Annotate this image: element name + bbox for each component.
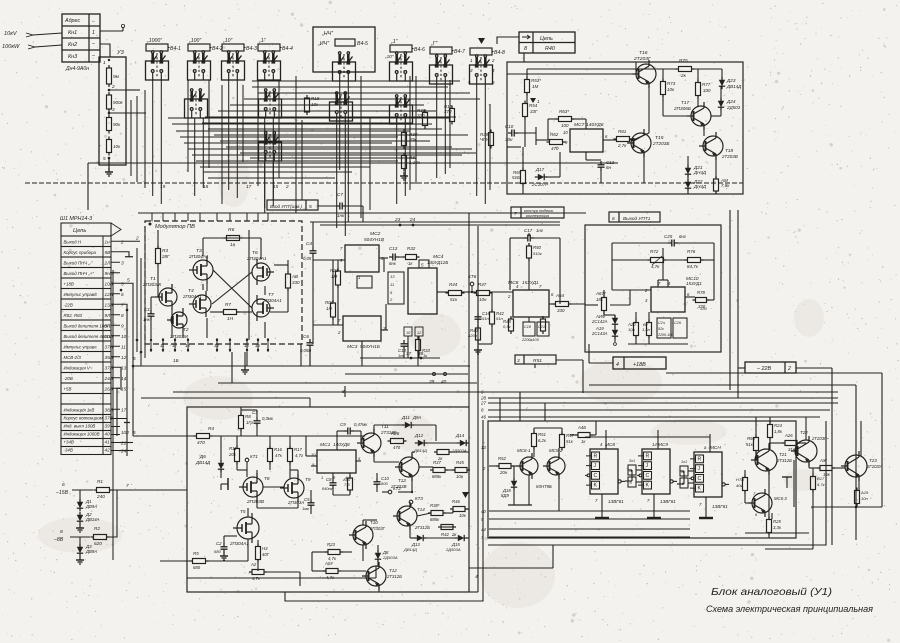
transistor T9 2P303A (284, 478, 304, 498)
svg-text:Д23: Д23 (726, 78, 736, 83)
diode D24 (718, 101, 724, 107)
svg-text:ДВ9А: ДВ9А (85, 549, 97, 554)
svg-text:R40: R40 (545, 46, 555, 52)
resistor R49 (541, 319, 546, 331)
svg-text:10: 10 (563, 130, 568, 135)
resistor R53b 33k (560, 435, 565, 448)
resistor R54 33G (523, 104, 528, 117)
svg-text:коллектора: коллектора (526, 213, 550, 218)
svg-text:МС7: МС7 (574, 122, 585, 128)
wire R51 box to bus (556, 359, 583, 361)
svg-text:9м: 9м (113, 74, 120, 79)
wire inner bottom rail (187, 577, 376, 579)
modulator dashed box (145, 221, 302, 344)
svg-text:-34В: -34В (64, 448, 73, 453)
svg-text:С17: С17 (524, 228, 533, 233)
svg-text:330: 330 (700, 306, 708, 311)
svg-text:240: 240 (96, 494, 105, 499)
svg-text:13Л: 13Л (105, 303, 114, 308)
svg-text:2С143А: 2С143А (591, 331, 608, 336)
svg-text:2П303А: 2П303А (287, 500, 304, 505)
svg-text:R: R (698, 456, 702, 462)
svg-text:Т5: Т5 (240, 509, 246, 514)
table pin stubs (111, 240, 120, 242)
svg-text:2: 2 (787, 366, 791, 372)
svg-text:„НЧ”: „НЧ” (321, 31, 333, 37)
svg-text:R2: R2 (94, 526, 100, 531)
wire from R40 box down (523, 53, 525, 62)
resistor R39 4.7k (489, 133, 494, 146)
wire +18V left (589, 362, 613, 364)
svg-text:42: 42 (105, 448, 111, 453)
transistor T21 2T312B (755, 449, 777, 471)
ground mark near T21 (782, 476, 792, 478)
capacitor C9 0.47mk (347, 428, 349, 435)
wire bundle horizontal collectors (168, 117, 450, 119)
svg-text:2200-100: 2200-100 (657, 333, 673, 337)
svg-text:10н: 10н (479, 297, 487, 302)
capacitor C2 680 (221, 546, 228, 548)
resistor RA01 7.5k (714, 179, 719, 191)
svg-text:R76: R76 (687, 249, 696, 254)
resistor R2 620 (94, 535, 107, 540)
svg-text:R26: R26 (391, 431, 400, 436)
svg-text:2Т312Б: 2Т312Б (776, 458, 792, 463)
diode D1 (77, 502, 83, 508)
svg-text:504УН1Б: 504УН1Б (360, 344, 380, 349)
digital block frame (488, 421, 796, 538)
svg-text:Т22: Т22 (800, 430, 808, 435)
wire table row 21 right (120, 442, 133, 444)
svg-text:R: R (594, 453, 598, 459)
svg-text:2П306Б: 2П306Б (673, 106, 691, 111)
svg-text:R: R (646, 453, 650, 459)
svg-text:КТ1: КТ1 (250, 454, 258, 459)
svg-text:+34В: +34В (64, 440, 74, 445)
resistor R8 330 (286, 274, 291, 288)
svg-text:КТ2: КТ2 (393, 486, 401, 491)
wire node3 right (126, 112, 146, 114)
ic MC4 input pin box (388, 272, 404, 304)
svg-text:K: K (698, 486, 702, 492)
svg-text:10Л: 10Л (105, 282, 114, 287)
svg-text:3: 3 (112, 107, 115, 112)
svg-text:19: 19 (160, 184, 166, 189)
svg-text:К0НТ9Б: К0НТ9Б (536, 484, 552, 489)
svg-text:R25: R25 (773, 519, 781, 524)
wire vertical MC4 bottom (407, 336, 409, 358)
wire Кн1 row to stub (100, 30, 123, 32)
svg-text:R46: R46 (452, 499, 460, 504)
wire R5 right (207, 560, 248, 562)
svg-text:2П304А1: 2П304А1 (182, 294, 202, 299)
svg-text:6,2к: 6,2к (538, 438, 547, 443)
resistor R1 240 (97, 488, 110, 493)
flip-flop MC8 133TV1 (590, 449, 618, 494)
svg-text:ДВ9А: ДВ9А (85, 504, 97, 509)
resistor R36 330 (423, 113, 428, 126)
svg-text:С21: С21 (538, 325, 545, 329)
svg-text:1х1: 1х1 (681, 460, 687, 464)
svg-text:51к: 51к (450, 297, 458, 302)
svg-text:ДН4Д: ДН4Д (693, 184, 707, 189)
svg-text:10н: 10н (456, 474, 464, 479)
svg-text:140УД12Б: 140УД12Б (427, 260, 448, 265)
resistor R5 680 (193, 559, 206, 564)
ground D3 (79, 556, 81, 560)
resistor R26b 31k (785, 441, 797, 446)
svg-text:7: 7 (514, 211, 517, 217)
svg-text:17: 17 (246, 184, 252, 189)
svg-text:46: 46 (481, 415, 487, 420)
svg-text:1М: 1М (331, 274, 338, 279)
svg-text:R32: R32 (407, 246, 416, 251)
svg-text:С10: С10 (505, 124, 514, 129)
svg-text:А26: А26 (784, 433, 793, 438)
svg-text:1: 1 (92, 30, 95, 36)
svg-text:2П303В: 2П303В (246, 499, 264, 504)
transistor T7 2P304A1 (252, 299, 270, 317)
svg-text:„1”: „1” (258, 38, 266, 44)
svg-text:Т18: Т18 (725, 148, 733, 153)
svg-text:R45: R45 (456, 460, 464, 465)
capacitor C10b 600 (374, 481, 381, 483)
svg-text:Т10: Т10 (370, 520, 378, 525)
svg-text:100кW: 100кW (2, 44, 20, 50)
svg-text:3,3к: 3,3к (773, 525, 782, 530)
svg-text:R3: R3 (162, 248, 168, 253)
ground stub on Корпус row (120, 252, 129, 257)
wire verticals to modulator top (151, 213, 153, 221)
svg-text:12: 12 (172, 343, 177, 348)
svg-text:Н3: Н3 (262, 546, 268, 551)
node 5 (108, 157, 111, 160)
capacitor C5 1mk (308, 502, 315, 504)
svg-text:R78: R78 (697, 290, 705, 295)
svg-text:10к: 10к (667, 87, 675, 92)
ground under R31 (403, 172, 405, 176)
svg-text:Блок аналоговый (У1): Блок аналоговый (У1) (711, 587, 832, 598)
svg-text:K: K (594, 483, 598, 489)
svg-text:Корпус прибора: Корпус прибора (64, 250, 97, 255)
node 23 24 dots (399, 224, 402, 227)
svg-text:ДВ14А: ДВ14А (85, 517, 100, 522)
resistor R42v (490, 312, 495, 324)
svg-text:1н: 1н (230, 242, 236, 247)
transistor T17 (691, 106, 711, 126)
svg-text:153УД1: 153УД1 (686, 281, 702, 286)
svg-text:11: 11 (160, 343, 165, 348)
resistor R44 51k (449, 291, 462, 296)
svg-text:С2: С2 (216, 541, 222, 546)
wire vertical MC3 bottom (361, 341, 363, 366)
svg-text:37В: 37В (105, 416, 113, 421)
svg-text:14: 14 (121, 376, 127, 381)
transistor T3 2P304A1 (193, 260, 213, 280)
svg-text:С6: С6 (303, 334, 309, 339)
svg-text:2С142А: 2С142А (591, 319, 608, 324)
svg-text:4,7г: 4,7г (295, 453, 304, 458)
ic MC8 153UD1 (513, 290, 549, 317)
svg-text:Выход ПНЧ „-”: Выход ПНЧ „-” (64, 261, 94, 266)
switch В4-6 value label (390, 45, 412, 52)
svg-text:10Л: 10Л (121, 430, 129, 435)
svg-text:R5: R5 (193, 551, 199, 556)
svg-text:Д6: Д6 (199, 454, 206, 459)
svg-text:0,5к: 0,5к (503, 324, 512, 329)
svg-text:R47: R47 (478, 282, 487, 287)
resistor R65 (521, 171, 526, 184)
svg-text:6: 6 (121, 292, 124, 297)
svg-text:1Б: 1Б (173, 358, 179, 363)
resistor R81 2.7k (617, 137, 630, 142)
wires upt2 internals (220, 484, 222, 490)
transistor T13 2G203V (399, 457, 419, 477)
ground under modulator (244, 366, 246, 370)
svg-text:R63*: R63* (559, 109, 569, 114)
divider block U3 (99, 57, 126, 165)
diode D3 (77, 547, 83, 553)
svg-text:С2ч: С2ч (658, 321, 665, 325)
marker triangle 2 (462, 492, 469, 498)
resistor R76 84.7k (688, 258, 701, 263)
svg-text:Выход ПНЧ „+”: Выход ПНЧ „+” (64, 271, 95, 276)
svg-text:5: 5 (133, 430, 136, 435)
transistor T11 2T312B (361, 433, 381, 453)
svg-text:12: 12 (121, 355, 127, 360)
wire right vertical x882 (881, 373, 883, 507)
svg-text:9: 9 (121, 323, 124, 328)
resistor R37 885k (433, 468, 445, 473)
svg-text:Т16: Т16 (639, 50, 648, 56)
diode D6 DV14D (218, 463, 224, 469)
diode D18 KD9 (511, 481, 517, 487)
svg-text:2: 2 (111, 84, 115, 89)
wire verticals x301 x310 below modulator (300, 344, 302, 366)
svg-text:Выход Н: Выход Н (64, 240, 82, 245)
transistor MC5-2 (547, 457, 565, 475)
svg-text:„1000”: „1000” (146, 38, 162, 44)
diode D13 DV14D (417, 535, 423, 541)
svg-text:R81: R81 (618, 129, 627, 134)
transistor T15 2T203B (631, 133, 651, 153)
svg-text:18к: 18к (596, 297, 604, 302)
svg-text:51н: 51н (482, 316, 490, 321)
label box -22V (745, 362, 796, 373)
svg-text:Импульс управл.: Импульс управл. (64, 345, 98, 350)
svg-text:ДН4Д: ДН4Д (693, 170, 707, 175)
resistor 900k (107, 95, 112, 109)
svg-text:5: 5 (133, 356, 136, 361)
svg-text:С18: С18 (524, 325, 532, 329)
svg-text:+18В: +18В (633, 362, 646, 368)
svg-text:R51: R51 (538, 432, 546, 437)
svg-text:10кV: 10кV (4, 31, 18, 37)
svg-text:20н: 20н (499, 470, 508, 475)
svg-text:R77: R77 (702, 82, 711, 87)
resistor R64 330 (556, 302, 569, 307)
wire box to C7 (318, 205, 337, 207)
svg-text:13: 13 (185, 343, 190, 348)
resistor R22 1M (331, 303, 336, 317)
svg-text:140УД8: 140УД8 (333, 442, 350, 447)
svg-text:9Л: 9Л (105, 313, 112, 318)
wire y385 long (589, 384, 856, 386)
svg-text:J: J (698, 466, 701, 472)
svg-text:8: 8 (524, 46, 527, 52)
svg-text:МСВ-2/3: МСВ-2/3 (64, 355, 82, 360)
svg-text:2Т203Б: 2Т203Б (652, 141, 669, 146)
top-right block frame (507, 62, 743, 194)
transistor T22 2T203G (795, 440, 817, 462)
svg-text:24: 24 (409, 217, 416, 222)
svg-text:R51: R51 (533, 358, 542, 364)
svg-text:2Д503А: 2Д503А (445, 547, 461, 552)
svg-text:1Гр: 1Гр (246, 420, 254, 425)
svg-text:10н: 10н (628, 327, 636, 332)
svg-text:1Н: 1Н (326, 306, 333, 311)
svg-text:2Д503А: 2Д503А (382, 555, 398, 560)
capacitor C7 (339, 203, 341, 210)
wire T16 collector (648, 62, 650, 64)
bus wires above digital block (173, 391, 838, 393)
svg-text:2: 2 (491, 58, 495, 63)
svg-text:R24: R24 (774, 423, 782, 428)
svg-text:МС1: МС1 (320, 442, 331, 448)
svg-text:R73: R73 (667, 81, 676, 86)
svg-text:С7: С7 (337, 192, 343, 197)
resistor R62 470 (550, 140, 563, 145)
svg-text:Д11: Д11 (401, 415, 410, 420)
svg-text:33Г: 33Г (530, 109, 538, 114)
svg-text:В4-2: В4-2 (212, 46, 223, 52)
ground C2 (223, 552, 225, 556)
svg-text:3: 3 (121, 260, 124, 265)
diode D19 2C142A (612, 318, 618, 324)
svg-text:37Л: 37Л (105, 366, 114, 371)
wire R75 to right rail (691, 68, 722, 70)
label box +18V (613, 357, 666, 369)
svg-text:30н: 30н (505, 137, 513, 142)
node 2 (108, 89, 111, 92)
svg-text:А4Б: А4Б (577, 425, 586, 430)
svg-text:1мк: 1мк (302, 506, 310, 511)
svg-text:ДВ14Д: ДВ14Д (726, 84, 742, 89)
diode D12 DV14D (418, 440, 424, 446)
svg-text:10: 10 (121, 334, 127, 339)
svg-text:330: 330 (703, 88, 711, 93)
svg-text:„ИЧ”: „ИЧ” (317, 41, 329, 47)
svg-text:R21: R21 (330, 268, 339, 273)
svg-text:11: 11 (390, 282, 394, 287)
svg-text:2Т203В: 2Т203В (721, 154, 738, 159)
wire C7 right (346, 205, 363, 207)
svg-text:2Т203Г~: 2Т203Г~ (811, 436, 829, 441)
transistor MC6-1 (520, 457, 538, 475)
resistor R67 18k (602, 298, 607, 311)
svg-text:Т23: Т23 (869, 458, 877, 463)
label box signal collector 7 (511, 207, 564, 218)
svg-text:С5: С5 (304, 497, 310, 502)
switch В4-1 value label (146, 44, 168, 51)
svg-text:10к: 10к (459, 513, 467, 518)
marker triangle (478, 38, 485, 44)
svg-text:1: 1 (103, 60, 106, 65)
capacitor plate symbol (227, 478, 229, 490)
svg-text:Кн2: Кн2 (68, 42, 77, 48)
svg-text:R4: R4 (208, 426, 214, 431)
switch B4-5 contact group (338, 52, 341, 55)
svg-text:R54: R54 (529, 103, 538, 108)
svg-text:330: 330 (292, 280, 300, 285)
svg-text:Т12: Т12 (389, 568, 397, 573)
transistor T14 2T312B (397, 506, 417, 526)
resistor R33 1k (416, 340, 421, 351)
switch В4-6 contact group (395, 52, 398, 55)
svg-text:КТ3: КТ3 (415, 496, 423, 501)
resistor R6 1n (227, 236, 240, 241)
wire staircase horizontals from switch columns (252, 80, 460, 82)
svg-text:С13: С13 (389, 246, 398, 251)
capacitor C13 6n (392, 254, 394, 261)
wire y436 input (133, 435, 195, 437)
resistor R16 47k (268, 449, 273, 462)
svg-text:МС3: МС3 (347, 344, 358, 350)
svg-text:ДВ14Д: ДВ14Д (403, 547, 417, 552)
svg-text:1ЗВГ81: 1ЗВГ81 (712, 504, 728, 509)
svg-text:R1: R1 (97, 479, 103, 484)
svg-text:2Т203Г: 2Т203Г (633, 56, 651, 62)
svg-text:3х1: 3х1 (629, 459, 635, 463)
wire vertical x469 above upt frame (468, 213, 470, 407)
svg-text:МС5-2: МС5-2 (549, 448, 563, 453)
capacitor C12 6n (598, 164, 605, 166)
svg-text:0,3мк: 0,3мк (262, 416, 274, 421)
svg-text:С25: С25 (664, 234, 673, 239)
diode D21 (685, 168, 691, 174)
svg-text:153УД1: 153УД1 (522, 280, 539, 285)
wire MC5-2 collector to R53 (558, 448, 560, 457)
svg-text:R11: R11 (229, 446, 237, 451)
wire R81 to T15 (629, 139, 634, 141)
opamp MC1 140UD8 (317, 450, 356, 473)
svg-text:ДВ14Д: ДВ14Д (413, 448, 427, 453)
svg-text:44: 44 (481, 527, 486, 532)
resistor R46c 1k (578, 433, 590, 438)
svg-text:Т9: Т9 (305, 477, 311, 482)
switch В4-4 value label (258, 44, 280, 51)
resistor R3 28k (156, 249, 161, 264)
wire R46c to bus (590, 434, 596, 436)
wire bus vertical from divider area (87, 163, 89, 210)
svg-text:2,7к: 2,7к (617, 143, 627, 148)
wire horizontal y366 below modulator (133, 365, 470, 367)
svg-text:R56: R56 (747, 436, 755, 441)
wire Кн2 row down to divider (100, 44, 110, 57)
svg-text:В4-6: В4-6 (414, 47, 425, 53)
svg-text:Индикация 1кВ: Индикация 1кВ (64, 408, 95, 413)
svg-text:„1”: „1” (390, 39, 398, 45)
svg-text:+5В: +5В (64, 387, 72, 392)
resistor R8 1G (239, 416, 244, 429)
svg-text:620: 620 (94, 541, 102, 546)
resistor R73 10k (661, 82, 666, 95)
svg-text:Д9А: Д9А (412, 415, 421, 420)
svg-text:Дн4-9А0н: Дн4-9А0н (65, 66, 89, 72)
resistor R13 370 (450, 109, 455, 122)
wire vertical x520 down (519, 392, 521, 421)
svg-text:С4: С4 (306, 241, 312, 246)
